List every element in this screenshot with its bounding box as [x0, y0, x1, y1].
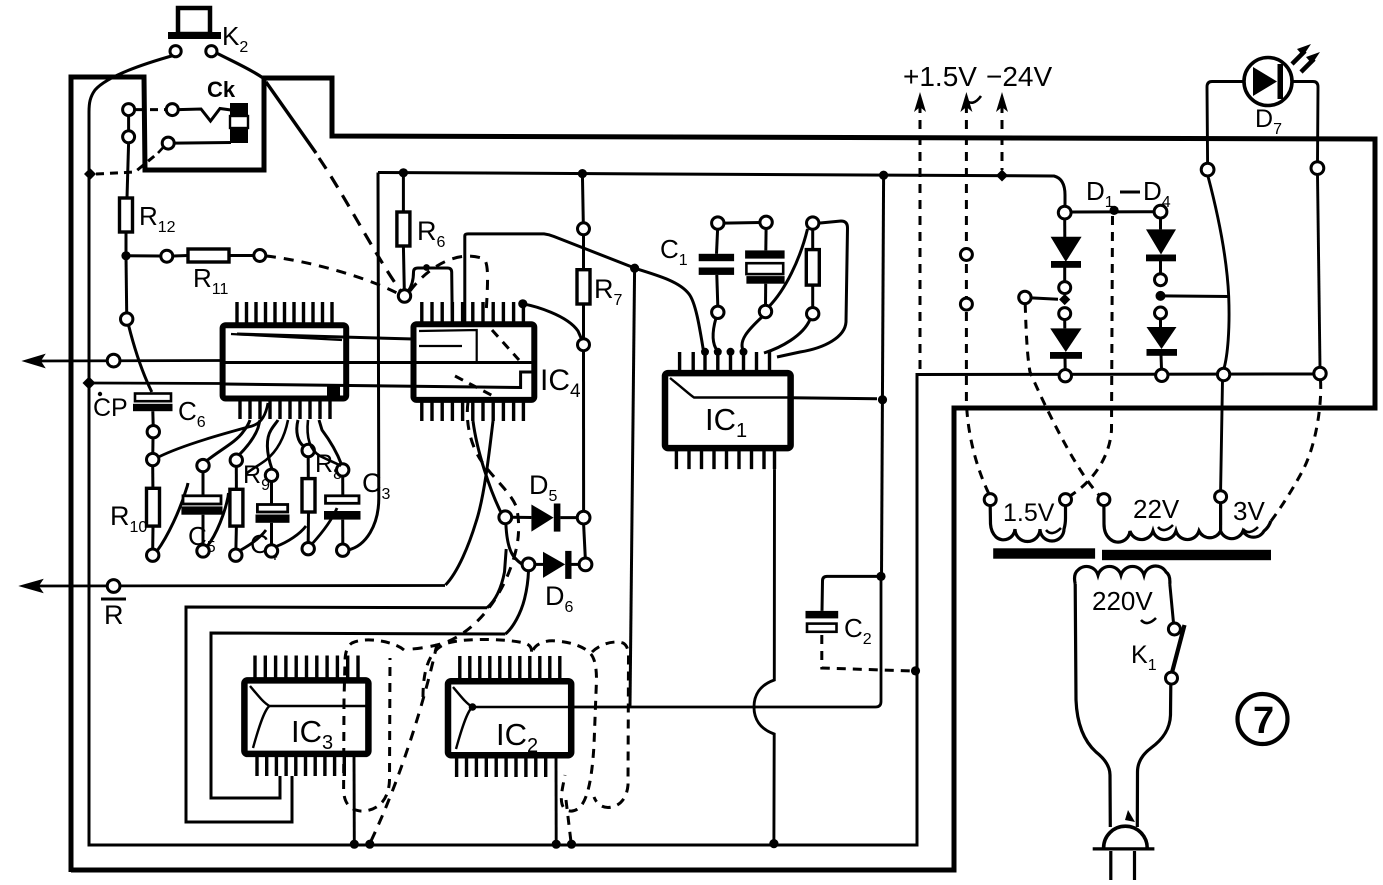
- wire crystal bottom to IC1 pins: [742, 317, 762, 351]
- wire C5 top lead: [202, 472, 205, 496]
- node D3-D4 contact upper: [1155, 274, 1167, 286]
- wire D7 left lead down: [1207, 82, 1244, 164]
- IC U5 top pins: [237, 302, 332, 325]
- IC IC2 top pins: [460, 656, 560, 681]
- winding 1.5V: [990, 506, 1065, 542]
- IC IC4 top pins: [422, 302, 524, 324]
- wire R11 right lead: [229, 254, 254, 257]
- diode D2 cathode bar: [1050, 352, 1082, 359]
- wire C1 left feed from C1 node: [635, 268, 704, 351]
- svg-text:7: 7: [1253, 700, 1274, 742]
- wire D7 right lead down: [1292, 82, 1318, 163]
- pushbutton K2 base bar: [168, 32, 221, 39]
- wire C4 bottom lead: [270, 523, 273, 545]
- wire R8 bottom tail: [312, 508, 337, 544]
- wire IC2 pin to bottom rail: [555, 755, 558, 843]
- capacitor C6 plate top (outlined): [135, 394, 171, 402]
- wire D5 anode lead: [512, 516, 532, 519]
- wire IC4 top-right pin to R7 node: [523, 304, 582, 339]
- IC IC4 internal lines: [419, 330, 477, 361]
- wire IC4 pin riser to C1 node: [465, 234, 632, 324]
- wire hook from R-C1 node right and down to IC1 pin: [777, 221, 848, 357]
- arrowhead R-bar output: [21, 580, 42, 592]
- pushbutton K2 cap: [178, 8, 210, 34]
- node C4 bottom contact: [265, 545, 277, 557]
- capacitor C5 plate top (outlined): [183, 496, 221, 504]
- junction dot IC3 dashed on rail: [365, 840, 374, 849]
- wire from R12 lower node to C6 top: [129, 325, 152, 392]
- transformer core bar left: [993, 548, 1095, 558]
- junction dot supply rail at x=883: [879, 171, 888, 180]
- node R-C1 bottom contact: [807, 308, 819, 320]
- node 22V-3V tap contact upper: [1215, 491, 1227, 503]
- capacitor C2 plate bottom (outlined): [807, 624, 837, 632]
- crystal X1 bottom plate: [746, 276, 784, 284]
- junction diamond supply rail at -24V tap: [996, 170, 1008, 182]
- wire R12 bottom to junction: [125, 232, 128, 256]
- junction dot right bus at C2: [876, 572, 885, 581]
- wire dashed -24V arrow line: [1001, 104, 1004, 170]
- wire R7 top lead: [581, 174, 585, 223]
- plug P1 dome: [1104, 826, 1148, 848]
- wire C6 node to next node: [151, 438, 154, 454]
- svg-text:22V: 22V: [1133, 494, 1180, 524]
- wire D6 cathode lead: [572, 563, 580, 566]
- wire R6 top lead: [402, 173, 405, 212]
- wire K2 diagonal solid toward IC4: [266, 82, 316, 153]
- svg-text:Ck: Ck: [207, 77, 236, 102]
- wire Ck lower contact to crystal: [175, 141, 232, 145]
- wire rail634 curve up to D6 anode: [505, 571, 528, 634]
- junction dot C2 ground: [911, 666, 920, 675]
- resistor R8: [302, 479, 315, 512]
- arrowhead +1.5V: [914, 92, 926, 112]
- wire R7 node down to D5: [582, 351, 585, 512]
- svg-text:CP: CP: [93, 394, 128, 422]
- IC IC1 internal flag: [670, 378, 790, 398]
- IC IC3 body: [244, 680, 368, 754]
- wire dashed crossing to IC3 area: [412, 550, 516, 649]
- crystal Ck body upper plate: [230, 103, 248, 117]
- node C1 bottom contact: [712, 306, 724, 318]
- winding 220V primary: [1075, 566, 1170, 584]
- node D5 cathode contact: [577, 511, 590, 524]
- resistor R9: [230, 489, 243, 526]
- node contact on R12 line lower: [123, 131, 135, 143]
- node R8 top contact: [302, 444, 314, 456]
- wire dashed mid arrow line: [966, 104, 989, 494]
- wire extra bundle strand 2: [308, 420, 342, 466]
- wire R10 bottom tail: [157, 483, 188, 551]
- wire dashed bump over IC3 right pins and down: [344, 640, 404, 700]
- wire dashed left tap down to 22V winding: [1025, 304, 1099, 495]
- IC IC3 internal flag: [250, 686, 368, 748]
- wire C2 bottom dashed to ground: [822, 635, 910, 671]
- node crystal top contact: [760, 216, 772, 228]
- wire D1 anode lead: [1063, 219, 1066, 237]
- wire D1 cathode lead: [1063, 267, 1066, 281]
- wire middle line through ICs: [224, 361, 534, 364]
- junction dot right column mid: [1156, 291, 1166, 301]
- node C5 bottom contact: [197, 545, 209, 557]
- node C3 bottom contact: [337, 544, 349, 556]
- arrowhead mid supply: [960, 92, 972, 112]
- capacitor C1 plate top: [699, 254, 734, 261]
- wire R10 top lead: [151, 466, 154, 489]
- capacitor C3 plate bottom (solid): [324, 511, 361, 520]
- wire C5 bottom tail: [207, 493, 229, 547]
- wire R6 bottom lead: [402, 246, 406, 290]
- wire R9 bottom lead: [234, 526, 238, 549]
- wire R-C1 top lead: [811, 229, 814, 249]
- diode D6 cathode bar: [565, 551, 571, 579]
- wire S-curve IC4 pin down to R-bar rail: [446, 421, 494, 585]
- wire R8 top lead from IC pin: [297, 420, 304, 446]
- crystal X1 body: [746, 263, 783, 274]
- arrowhead CP output: [24, 355, 44, 367]
- node C3 top contact: [337, 464, 349, 476]
- svg-text:1.5V: 1.5V: [1003, 499, 1055, 527]
- wire D4 cathode lead: [1160, 355, 1164, 369]
- crystal Ck body lower plate: [230, 127, 248, 143]
- node C1 top contact: [712, 217, 724, 229]
- wire R11 left contact to body: [173, 254, 188, 258]
- junction dot IC2 solid on rail: [552, 840, 561, 849]
- junction dot on hook: [423, 264, 430, 271]
- junction dot IC1 wire on bottom rail: [769, 839, 778, 848]
- wire D5 cathode to D6 cathode: [584, 524, 586, 558]
- resistor R6: [397, 212, 410, 246]
- wire dashed +1.5V arrow line: [919, 104, 922, 371]
- wire dashed from ground diamond to Ck lever: [96, 153, 158, 174]
- capacitor C6 plate bottom (solid): [133, 404, 173, 411]
- plug P1 base line: [1093, 847, 1155, 850]
- tilde under 1.5V: [1046, 528, 1061, 533]
- node R12 line lower contact: [121, 313, 133, 325]
- wire R8 bottom lead: [307, 512, 310, 543]
- wire extra bundle strand 1: [246, 420, 288, 474]
- wire right bus vertical: [882, 175, 884, 576]
- IC U5 bottom pins: [240, 399, 330, 420]
- diode D3 triangle: [1146, 229, 1176, 254]
- diode D5 cathode bar: [554, 504, 561, 532]
- svg-text:220V: 220V: [1092, 586, 1153, 616]
- wire C6 bottom lead: [151, 411, 154, 425]
- IC IC4 bottom pins: [422, 400, 524, 421]
- diode D1 triangle: [1051, 237, 1082, 262]
- node left tap contact: [1019, 291, 1031, 303]
- wire dashed IC2 outer loop: [592, 642, 629, 808]
- junction dot IC1 output on bus: [878, 395, 887, 404]
- wire inner supply rail: [378, 173, 1065, 208]
- wire R9 top lead: [235, 466, 238, 489]
- wire upper gap line: [237, 334, 414, 339]
- node Ck lower contact: [162, 137, 174, 149]
- wire C2 top lead to bus: [822, 576, 881, 611]
- LED D7 cathode bar: [1278, 64, 1284, 99]
- wire C3 top curve to IC pin: [319, 420, 342, 465]
- resistor R11 (horizontal): [188, 249, 229, 262]
- node bridge top-right contact: [1154, 205, 1167, 218]
- wire crystal top lead: [764, 229, 767, 251]
- pushbutton K2 right contact: [206, 46, 217, 57]
- wire dashed from right vertical to 3V winding: [1271, 380, 1321, 521]
- node right vertical bottom contact: [1314, 367, 1326, 379]
- plug P1 arrow mark: [1125, 810, 1135, 822]
- node contact on R12 line upper: [123, 104, 135, 116]
- wire R9 bottom tail: [240, 530, 266, 551]
- wire dashed IC2 tail to rail dot: [566, 800, 571, 842]
- IC IC1 bottom pins: [676, 448, 774, 469]
- node D1-D2 contact lower: [1059, 308, 1071, 320]
- junction dot supply rail at R7: [578, 169, 587, 178]
- wire K2 right contact to border corner: [217, 53, 264, 78]
- wire R12 top section: [127, 116, 130, 131]
- IC IC2 bottom pins: [457, 755, 546, 777]
- wire hook from R6 node into IC4 pin: [408, 268, 452, 323]
- junction dots on IC1 top pins: [701, 348, 709, 356]
- wire output arc from D7 left node to rail: [1208, 176, 1229, 368]
- node R10 bottom contact: [147, 549, 159, 561]
- wire CP output line with arrow: [30, 359, 223, 362]
- capacitor C4 plate bottom (solid): [256, 515, 290, 523]
- node C4 top contact: [265, 469, 277, 481]
- capacitor C5 plate bottom (solid): [181, 506, 222, 514]
- wire dashed IC3 right loop: [344, 658, 390, 811]
- wire crystal bottom lead: [764, 284, 767, 306]
- tilde under 220V: [1141, 618, 1156, 623]
- wire IC2 output to right bus corner: [571, 576, 881, 707]
- wire R10 bottom lead: [151, 526, 154, 549]
- node R10 top contact: [147, 453, 159, 465]
- wire R9 top curve to IC pin: [239, 420, 260, 455]
- wire C1 node down to IC2 output line: [630, 268, 635, 706]
- wire ground net: K2 left contact down left side, bottom rail, up right to bridge minus rail: [89, 55, 1320, 845]
- node bridge top-left contact: [1058, 206, 1071, 219]
- node D6 cathode contact: [579, 558, 592, 571]
- wire ground branch to left IC lower line: [89, 382, 224, 385]
- node C5 top contact: [197, 459, 209, 471]
- crystal Ck body gap: [230, 116, 248, 128]
- wire C1 bottom lead: [717, 275, 718, 306]
- svg-text:+1.5V: +1.5V: [903, 61, 977, 92]
- node CP contact: [107, 354, 120, 367]
- node R6 bottom contact: [398, 290, 410, 302]
- pushbutton K2 left contact: [170, 46, 181, 57]
- node D7 left contact: [1201, 163, 1214, 176]
- node R7 upper contact: [578, 223, 590, 235]
- junction diamond on ground at top left: [84, 168, 96, 180]
- IC U5 body (left large IC): [223, 325, 347, 398]
- diode D1 cathode bar: [1051, 261, 1081, 268]
- junction dot R12/R11: [121, 251, 130, 260]
- svg-text:3V: 3V: [1233, 496, 1265, 526]
- node crystal bottom contact: [759, 305, 771, 317]
- wire C1 bottom to IC1 pins: [713, 318, 717, 351]
- node contact on mid dashed upper: [960, 249, 972, 261]
- wire 22V-3V tap up: [1221, 381, 1223, 526]
- node R11 left contact: [161, 250, 173, 262]
- node contact on mid dashed lower: [960, 298, 972, 310]
- wire bridge top link: [1071, 210, 1154, 213]
- resistor R7: [577, 270, 590, 304]
- node D2 bottom contact: [1059, 370, 1071, 382]
- wire R7 contact to body: [582, 235, 585, 270]
- wire S-curve crystal bottom to R top node: [769, 229, 808, 307]
- wire dashed link to Ck: [136, 108, 165, 111]
- LED D7 circle: [1244, 58, 1292, 106]
- wire diagonal from IC4 pin to D5 anode: [473, 421, 501, 512]
- capacitor C2 plate top (solid): [806, 611, 839, 619]
- diode D4 triangle: [1147, 327, 1177, 349]
- arrowhead -24V: [996, 92, 1008, 112]
- wire dashed IC2 middle bump and right descent: [533, 641, 597, 811]
- diode D3 cathode bar: [1146, 255, 1176, 262]
- node arc bottom contact: [1217, 368, 1229, 380]
- LED D7 triangle: [1253, 67, 1277, 96]
- plug P1 prongs: [1111, 851, 1135, 880]
- diode D2 triangle: [1050, 328, 1081, 352]
- IC U5 internal mark: [327, 386, 340, 396]
- IC IC4 body: [414, 324, 535, 400]
- wire R7 bottom lead: [582, 304, 585, 339]
- wire left tap to column: [1031, 298, 1058, 299]
- wire R11 left lead: [126, 254, 161, 257]
- crystal X1 top plate: [745, 250, 785, 258]
- node C6 bottom contact: [147, 426, 159, 438]
- wire R12 line to resistor: [127, 143, 129, 198]
- wire C3 top lead: [341, 476, 344, 496]
- switch K1 lever: [1172, 625, 1185, 673]
- wire R11 dashed to R6 node: [266, 256, 397, 293]
- svg-text:−24V: −24V: [986, 61, 1052, 92]
- node D1-D2 contact upper: [1059, 282, 1071, 294]
- node R-bar contact: [107, 580, 120, 593]
- wire dashed inside IC4 diag1: [492, 330, 519, 360]
- wire dashed bridge center down to 1.5V right terminal: [1070, 216, 1113, 496]
- IC IC3 bottom pins: [257, 754, 344, 776]
- wire Ck switch arm with notch: [179, 109, 232, 122]
- junction dot bridge top center: [1110, 206, 1119, 215]
- wire D3 cathode lead: [1159, 261, 1162, 274]
- wire C1 top lead: [717, 229, 718, 254]
- node D5 anode contact: [499, 511, 512, 524]
- node R11 right contact: [254, 250, 266, 262]
- resistor R10: [147, 488, 160, 526]
- tilde under V of 1.5V: [966, 96, 981, 103]
- wire D4 anode lead: [1159, 319, 1162, 327]
- junction diamond on ground at CP branch: [83, 377, 96, 390]
- IC IC1 body: [665, 373, 791, 448]
- node D3-D4 contact lower: [1155, 307, 1167, 319]
- wire Ck lower lever tick: [158, 147, 164, 154]
- node 1.5V right terminal: [1060, 494, 1072, 506]
- wire D2 cathode lead: [1064, 358, 1067, 370]
- wire D3 anode lead: [1159, 218, 1162, 229]
- capacitor C3 plate top (outlined): [326, 496, 360, 504]
- capacitor C1 plate bottom: [699, 268, 734, 275]
- wire rail607 curve up to D5/D6 anodes: [487, 549, 506, 608]
- diode D5 triangle: [531, 505, 553, 532]
- wire IC1 output to right bus: [791, 398, 877, 399]
- wire dashed arc over hook into IC4: [410, 256, 488, 315]
- wire rail634 wrap around IC3: [211, 633, 505, 798]
- resistor R-C1 (vertical in C1 group): [806, 250, 819, 286]
- node R8 bottom contact: [302, 543, 314, 555]
- wire C5 bottom lead: [202, 515, 205, 545]
- diode D6 triangle: [543, 552, 565, 578]
- wire C4 top lead: [270, 482, 273, 505]
- wire C3 bottom lead: [341, 520, 344, 544]
- wire dashed IC4 exit down to D5/D6 crossing: [467, 402, 518, 550]
- wire D5 anode to D6 anode: [506, 524, 522, 565]
- wire K2 diagonal dashed continuation to R6 node: [319, 158, 400, 290]
- diode D4 cathode bar: [1147, 349, 1178, 356]
- junction diamond left column mid: [1059, 294, 1070, 305]
- IC IC2 body: [448, 681, 571, 755]
- LED D7 light arrows: [1292, 51, 1305, 64]
- wire dashed inside IC4 diag2: [455, 376, 495, 397]
- node D7 right contact: [1311, 162, 1324, 175]
- junction dot IC4 top-right pin: [518, 299, 527, 308]
- wire 220V right side to K1: [1170, 584, 1174, 623]
- wire D7 right vertical to bridge rail: [1318, 174, 1321, 367]
- node R9 bottom contact: [230, 549, 242, 561]
- junction dot IC3 solid on rail: [350, 840, 359, 849]
- wire dashed IC3 to bottom rail dot: [371, 644, 437, 841]
- transformer core bar right: [1102, 550, 1271, 560]
- node R7 lower contact: [578, 339, 590, 351]
- wire R-C1 bottom lead: [811, 285, 814, 307]
- wire +supply rail left drop to C3: [348, 173, 379, 551]
- svg-text:R: R: [104, 600, 124, 630]
- junction dot IC2 dashed on rail: [567, 840, 576, 849]
- wire 220V left side down to plug: [1075, 584, 1110, 827]
- wire R-C1 bottom to IC1 pins: [764, 320, 810, 354]
- wire C4 bottom tail: [276, 526, 306, 547]
- wire right mid to output arc: [1161, 294, 1230, 298]
- wire dashed IC2 left bump: [423, 639, 532, 697]
- figure number circle: [1238, 694, 1288, 744]
- junction dot IC2 flag: [469, 703, 477, 711]
- node K1 bottom contact: [1166, 672, 1178, 684]
- wire R-bar output line with arrow: [28, 584, 445, 587]
- node K1 top contact: [1168, 623, 1180, 635]
- IC IC3 top pins: [255, 656, 358, 681]
- wire R8 top lead lower: [307, 457, 310, 479]
- wire D6 anode lead: [535, 563, 543, 566]
- wire lower line through ICs: [224, 372, 534, 388]
- node 22V left terminal: [1098, 494, 1110, 506]
- winding 22V and 3V: [1104, 503, 1271, 542]
- resistor R12: [120, 198, 133, 232]
- wire R12 line continues to lower node: [125, 256, 129, 313]
- junction dot C1 node: [630, 264, 639, 273]
- node Ck switch left contact: [166, 104, 178, 116]
- IC U5 internal top line: [231, 334, 342, 340]
- tilde under 3V: [1243, 527, 1258, 532]
- tilde under 22V: [1158, 525, 1173, 530]
- wire IC1 bottom pin down with hop over IC2 line: [754, 469, 775, 841]
- wire C1 top link: [724, 221, 760, 225]
- wire big swoop from R10 node to IC pin: [159, 403, 269, 457]
- wire C5 top curve to IC pin: [207, 420, 250, 461]
- wire C4 top curve to IC pin: [267, 420, 278, 469]
- junction dot supply rail at R6: [399, 168, 408, 177]
- wire rail607 wrap around IC3: [186, 607, 487, 822]
- node D6 anode contact: [522, 558, 535, 571]
- capacitor C4 plate top (outlined): [257, 505, 287, 513]
